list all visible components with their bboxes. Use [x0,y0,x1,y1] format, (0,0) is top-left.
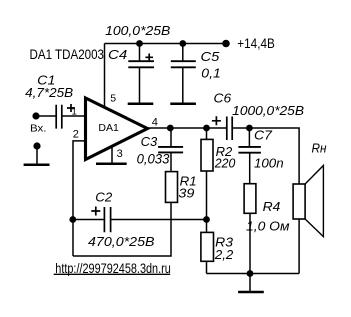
svg-text:C7: C7 [254,127,273,142]
svg-text:100,0*25В: 100,0*25В [105,23,171,38]
svg-text:470,0*25В: 470,0*25В [88,234,155,249]
svg-text:0,1: 0,1 [201,65,221,80]
svg-text:R4: R4 [263,199,281,214]
svg-text:DA1 TDA2003: DA1 TDA2003 [30,47,105,62]
svg-text:DA1: DA1 [98,123,119,134]
svg-text:220: 220 [214,155,236,170]
svg-text:4,7*25В: 4,7*25В [25,85,73,100]
svg-text:C2: C2 [95,189,113,204]
svg-text:1: 1 [72,107,77,118]
svg-text:100n: 100n [254,155,284,170]
svg-text:3: 3 [117,148,123,160]
svg-text:+14,4В: +14,4В [237,35,274,51]
svg-text:http://299792458.3dn.ru: http://299792458.3dn.ru [55,260,171,276]
svg-text:C3: C3 [141,134,158,149]
svg-text:2,2: 2,2 [214,247,234,262]
svg-text:C4: C4 [108,47,127,62]
svg-text:1000,0*25В: 1000,0*25В [232,103,304,118]
svg-text:1,0 Ом: 1,0 Ом [246,219,290,234]
svg-text:5: 5 [110,93,116,105]
svg-text:Вх.: Вх. [30,123,47,135]
svg-text:C5: C5 [201,49,221,64]
svg-text:0,033: 0,033 [137,151,170,166]
svg-text:39: 39 [178,186,194,201]
svg-text:2: 2 [73,128,79,140]
svg-text:C6: C6 [214,91,232,106]
svg-text:4: 4 [152,116,158,128]
svg-text:Rн: Rн [312,141,327,156]
